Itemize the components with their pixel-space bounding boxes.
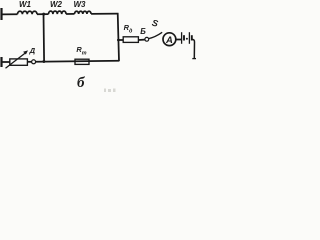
svg-text:A: A: [165, 35, 173, 46]
terminal bottom-left: [0, 57, 2, 67]
svg-text:W3: W3: [74, 0, 87, 9]
battery GB long plate 1: [181, 32, 183, 44]
wire ammeter to battery: [176, 39, 182, 41]
svg-text:W1: W1: [19, 0, 32, 9]
wire top-left segment: [1, 13, 18, 15]
wire right vertical: [118, 13, 119, 61]
battery GB dots (omitted cells): [186, 38, 188, 40]
switch B contact circle: [145, 37, 149, 41]
svg-text:Б: Б: [140, 27, 146, 36]
inductor W3: [75, 11, 92, 14]
artifact faint marks bottom: [104, 89, 116, 93]
resistor Rd body: [123, 37, 138, 43]
node junction top (W1/W2 tap): [42, 13, 45, 16]
inductor W1: [18, 11, 38, 14]
wire branch to Rd: [118, 39, 123, 41]
battery GB short plate 1: [183, 35, 185, 40]
wire W2 to W3: [66, 13, 74, 15]
inductor W2: [49, 11, 67, 14]
battery GB long plate 2: [188, 32, 190, 44]
wire top-right segment: [91, 13, 118, 15]
rheostat D arrowhead: [23, 50, 28, 54]
contact circle (plug): [32, 60, 36, 64]
battery GB short plate 2: [191, 35, 193, 40]
wire battery to stub: [192, 39, 195, 58]
svg-text:Д: Д: [29, 46, 36, 55]
wire Rd to switch: [138, 39, 145, 41]
node junction bottom: [42, 60, 45, 63]
wire W1 to node: [37, 13, 49, 15]
battery stub foot: [192, 58, 196, 60]
rheostat D arrow: [6, 53, 26, 69]
wire bottom (node to right corner): [36, 61, 120, 62]
svg-text:б: б: [77, 75, 85, 91]
resistor Rt body: [75, 59, 89, 64]
terminal top-left: [0, 8, 2, 20]
ammeter A circle U1: [163, 33, 176, 46]
wire bottom-left segment: [1, 61, 11, 63]
wire branch vertical (tap to bottom): [43, 14, 46, 61]
wire rheostat to contact: [27, 61, 31, 63]
svg-text:W2: W2: [50, 0, 63, 9]
switch B lever: [149, 32, 163, 38]
rheostat D body: [10, 59, 28, 65]
node junction at branch point: [117, 39, 120, 42]
